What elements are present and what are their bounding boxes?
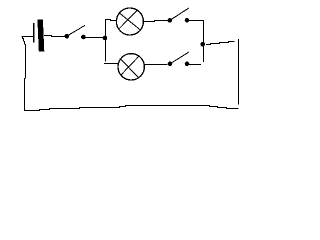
switch S2 right contact dot — [185, 18, 190, 23]
wire bottom (stepped) — [24, 106, 239, 111]
wire node B to right leg (stepped) — [206, 42, 234, 45]
wire lamp L1 to switch S2 (stepped) — [144, 21, 168, 22]
battery B1 positive plate (thick bar) — [37, 20, 44, 52]
wire switch S2 to top-right corner — [189, 20, 204, 22]
switch S2 left contact dot — [168, 18, 173, 23]
switch S1 right contact dot — [81, 35, 86, 40]
lamp L1 cross stroke 1 — [119, 13, 140, 30]
switch S1 left contact dot — [65, 34, 70, 39]
wire switch S3 right stub — [189, 64, 201, 66]
wire top branch to lamp L1 (stepped) — [105, 20, 117, 21]
battery B1 negative plate (thin short line) — [33, 23, 35, 43]
lamp L1 circle — [116, 8, 143, 35]
lamp L2 cross stroke 2 — [121, 56, 140, 76]
wire battery to left leg — [22, 36, 34, 38]
wire left leg (stepped) — [23, 37, 26, 111]
switch S3 blade — [170, 52, 189, 64]
lamp L2 circle — [118, 54, 144, 80]
wire parallel-section left vertical — [105, 20, 107, 62]
switch S3 right contact dot — [185, 62, 190, 67]
lamp L2 cross stroke 1 — [120, 58, 138, 77]
switch S2 blade — [170, 8, 189, 21]
switch S1 blade — [67, 25, 85, 36]
wire battery to switch S1 (stepped) — [44, 36, 66, 37]
node B junction dot — [200, 42, 205, 47]
wire right leg — [238, 39, 240, 105]
node A junction dot — [103, 36, 108, 41]
switch S3 left contact dot — [168, 62, 173, 67]
wire top-right vertical down to node B — [203, 21, 205, 43]
wire node B stub down — [203, 45, 205, 63]
wire switch S1 to node A — [86, 37, 104, 39]
lamp L1 cross stroke 2 — [119, 10, 137, 29]
wire bottom branch from vertical — [104, 63, 119, 65]
wire lamp L2 to switch S3 — [144, 64, 167, 66]
